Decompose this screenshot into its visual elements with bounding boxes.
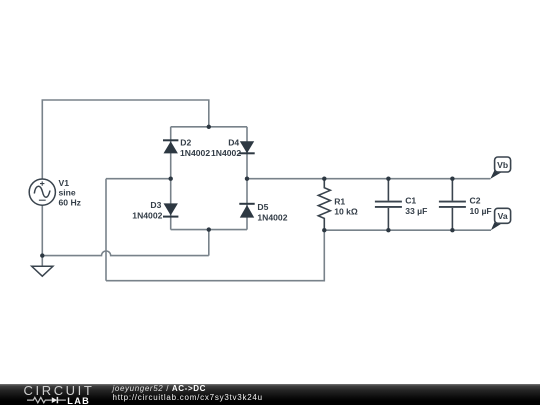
label C2 bbox=[470, 196, 492, 216]
label D2 bbox=[180, 138, 210, 158]
wire: bridge top rail bbox=[171, 126, 247, 128]
junction: bridge right mid bbox=[245, 177, 249, 181]
svg-text:1N4002: 1N4002 bbox=[132, 211, 162, 221]
svg-text:sine: sine bbox=[59, 188, 76, 198]
voltage source V1 bbox=[29, 179, 55, 205]
wire: bridge bottom rail bbox=[171, 229, 247, 231]
junction: C2 bottom bbox=[450, 228, 454, 232]
svg-text:D2: D2 bbox=[180, 138, 191, 148]
wire: V1 bottom to ground bbox=[41, 205, 43, 266]
svg-text:Vb: Vb bbox=[497, 160, 508, 170]
label V1 bbox=[59, 178, 81, 207]
junction: bridge bottom bbox=[207, 227, 211, 231]
capacitor C1 bbox=[375, 179, 402, 231]
label D3 bbox=[132, 200, 162, 221]
junction: bridge left mid bbox=[169, 177, 173, 181]
wire: ground horizontal with hop over vertical bbox=[42, 251, 209, 256]
wire: bridge bottom center drop bbox=[208, 230, 210, 256]
capacitor C2 bbox=[439, 179, 466, 231]
svg-text:33 µF: 33 µF bbox=[405, 206, 427, 216]
svg-text:10 µF: 10 µF bbox=[470, 206, 492, 216]
wire: V1 top to bridge top bbox=[42, 100, 209, 179]
resistor R1 bbox=[318, 179, 330, 231]
wire: bottom return rail to R1 bottom bbox=[106, 230, 324, 281]
svg-text:D4: D4 bbox=[228, 138, 239, 148]
svg-text:1N4002: 1N4002 bbox=[211, 148, 241, 158]
diode D5 bbox=[239, 204, 254, 218]
label D5 bbox=[257, 202, 287, 222]
label D4 bbox=[211, 138, 241, 158]
ground bbox=[32, 266, 53, 276]
svg-text:60 Hz: 60 Hz bbox=[59, 197, 81, 207]
svg-text:10 kΩ: 10 kΩ bbox=[334, 207, 358, 217]
svg-text:C2: C2 bbox=[470, 196, 481, 206]
CircuitLab logo text bbox=[24, 386, 95, 396]
svg-text:1N4002: 1N4002 bbox=[257, 212, 287, 222]
wire: top output rail bbox=[247, 178, 490, 180]
junction: C1 top bbox=[386, 177, 390, 181]
junction: R1 top bbox=[322, 177, 326, 181]
svg-text:D5: D5 bbox=[257, 202, 268, 212]
node flag Va bbox=[491, 208, 511, 230]
junction: R1 bottom bbox=[322, 228, 326, 232]
junction: C2 top bbox=[450, 177, 454, 181]
svg-text:Va: Va bbox=[498, 211, 508, 221]
wire: bridge right branch bbox=[246, 127, 248, 230]
svg-text:D3: D3 bbox=[150, 200, 161, 210]
svg-text:C1: C1 bbox=[405, 196, 416, 206]
diode D3 bbox=[163, 203, 178, 216]
node flag Vb bbox=[490, 157, 510, 179]
svg-text:V1: V1 bbox=[59, 178, 70, 188]
CircuitLab logo schematic + LAB bbox=[27, 395, 66, 405]
label R1 bbox=[334, 196, 358, 216]
junction: ground node bbox=[40, 253, 44, 257]
footer bar bbox=[0, 384, 540, 405]
diode D4 bbox=[239, 141, 254, 153]
wire: left vertical drop through hop bbox=[105, 179, 107, 281]
label C1 bbox=[405, 196, 427, 216]
junction: C1 bottom bbox=[386, 228, 390, 232]
diode D2 bbox=[163, 140, 178, 153]
wire: bridge left branch bbox=[170, 127, 172, 230]
wire: bottom output rail bbox=[324, 229, 491, 231]
wire: bridge left-mid to left drop bbox=[106, 178, 171, 180]
svg-text:1N4002: 1N4002 bbox=[180, 148, 210, 158]
footer meta text bbox=[113, 384, 263, 402]
junction: bridge top bbox=[207, 125, 211, 129]
svg-text:R1: R1 bbox=[334, 196, 345, 206]
